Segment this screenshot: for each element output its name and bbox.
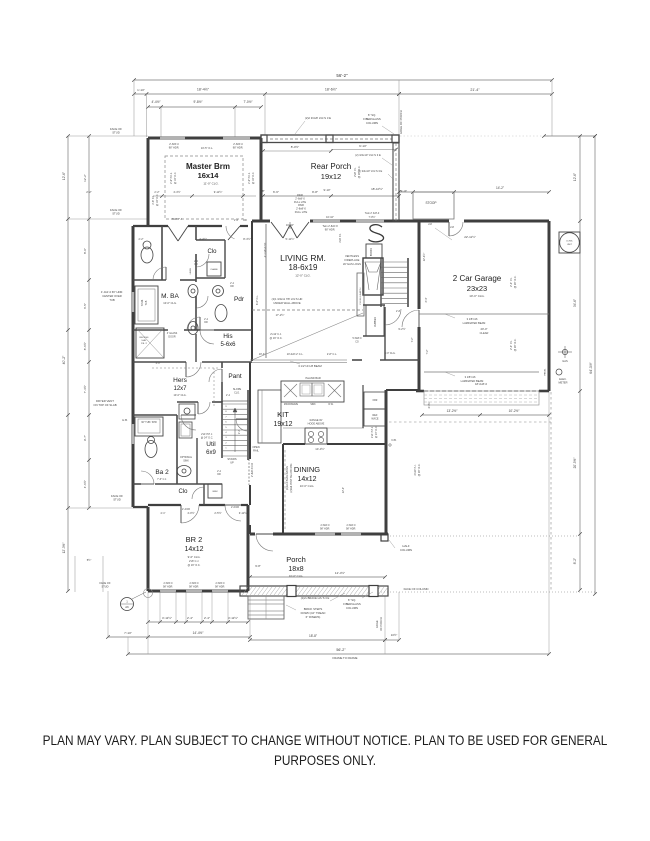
stairs upper treads: [381, 262, 408, 304]
util washer: [179, 404, 195, 419]
paving dotted y592: [381, 591, 597, 593]
dim row master windows: [148, 106, 261, 108]
svg-text:Porch: Porch: [286, 555, 306, 564]
right dim line outer: [594, 136, 596, 594]
svg-text:FACE OF: FACE OF: [99, 581, 111, 585]
svg-text:2'-4" P.J.: 2'-4" P.J.: [510, 340, 513, 350]
svg-text:(2)2 3/4x8' LVL'S 3 E: (2)2 3/4x8' LVL'S 3 E: [305, 116, 331, 120]
door clo upper: [196, 254, 209, 267]
chase box: [207, 262, 221, 276]
extension line x399 edge of porch: [398, 80, 400, 135]
rear porch column 1: [326, 135, 333, 143]
svg-text:9'-10": 9'-10": [323, 188, 330, 192]
svg-text:@ 16" O.C.: @ 16" O.C.: [514, 275, 517, 288]
svg-text:98" HDR.: 98" HDR.: [163, 586, 173, 589]
svg-text:Clo: Clo: [207, 249, 217, 255]
wall garage top: [419, 220, 449, 223]
detail marker A6: [121, 598, 134, 611]
svg-text:8'-0" CLG.: 8'-0" CLG.: [384, 352, 395, 355]
wall garage bottom ends: [416, 390, 424, 393]
svg-text:22'-11½": 22'-11½": [464, 235, 476, 239]
svg-text:STUD: STUD: [112, 212, 120, 216]
stairs lower arrow: [234, 408, 236, 452]
svg-text:19x12: 19x12: [321, 172, 341, 181]
svg-text:Master Brm: Master Brm: [186, 162, 230, 171]
fireplace bookcase: [366, 244, 382, 258]
svg-text:3'-11½": 3'-11½": [162, 616, 172, 620]
beam living-kitchen y361: [250, 359, 347, 361]
dim line overall width 56'-2": [134, 79, 552, 81]
svg-text:56'-2": 56'-2": [336, 73, 348, 78]
paving dashed vertical right: [550, 392, 552, 592]
disclaimer text: [41, 731, 610, 770]
rear porch right band: [393, 143, 399, 221]
wall ba2-util x177: [176, 415, 178, 484]
door ba2 inner: [141, 471, 154, 484]
door ba2: [181, 415, 196, 430]
door mba: [153, 267, 166, 280]
svg-text:STUD: STUD: [113, 498, 121, 502]
svg-text:2'-6" P.C.J.: 2'-6" P.C.J.: [170, 172, 173, 184]
svg-text:64'-3½": 64'-3½": [589, 361, 593, 373]
svg-text:18'-10½": 18'-10½": [371, 187, 383, 191]
svg-text:4'-10": 4'-10": [401, 190, 407, 193]
wall house left: [132, 226, 135, 292]
svg-text:98" HDR.: 98" HDR.: [346, 528, 356, 531]
svg-text:FACE OF COLUMN: FACE OF COLUMN: [404, 587, 429, 591]
wall hall y360: [352, 359, 362, 361]
svg-text:40'-2": 40'-2": [62, 355, 66, 364]
cubbies closet: [366, 305, 384, 336]
face of stud line top-left: [68, 135, 148, 137]
door mud: [385, 309, 401, 325]
dim stoop 14'-2: [399, 191, 549, 193]
wall BR2 right: [247, 505, 250, 591]
svg-text:2'x4' P.P. J.: 2'x4' P.P. J.: [371, 426, 374, 438]
svg-text:12x7: 12x7: [173, 386, 187, 392]
wall house east x386: [385, 390, 388, 534]
wall pant left x222: [221, 362, 223, 368]
svg-text:GAS: GAS: [562, 359, 568, 363]
svg-text:4'-4½": 4'-4½": [173, 190, 180, 194]
svg-text:12'-3½": 12'-3½": [62, 543, 66, 554]
svg-text:Twin 2' 3x8'-0: Twin 2' 3x8'-0: [365, 212, 380, 215]
svg-text:16'-10": 16'-10": [326, 216, 334, 219]
svg-text:LINEN: LINEN: [190, 267, 192, 274]
fireplace hearth: [357, 273, 364, 316]
dim rear porch top inner: [263, 150, 331, 152]
svg-text:7'-4½": 7'-4½": [83, 385, 87, 393]
front porch hatch: [242, 587, 388, 595]
wall y362 hers top: [133, 361, 186, 363]
svg-text:2'-4: 2'-4: [238, 429, 241, 434]
svg-text:P.B. 3': P.B. 3': [141, 343, 148, 345]
svg-text:STUD: STUD: [101, 585, 108, 589]
svg-text:2'-4" P.J.: 2'-4" P.J.: [510, 277, 513, 287]
svg-text:BRM: BRM: [213, 491, 218, 493]
svg-text:8'-0½": 8'-0½": [291, 145, 299, 149]
svg-text:2'-4: 2'-4: [226, 394, 231, 397]
svg-text:10'-0" CLG.: 10'-0" CLG.: [300, 484, 315, 488]
svg-text:EDGE OF PORCH: EDGE OF PORCH: [399, 110, 403, 133]
svg-text:SINK: SINK: [310, 404, 316, 406]
svg-text:98" HDR.: 98" HDR.: [325, 229, 336, 232]
face of stud line lower-left: [68, 507, 148, 509]
svg-text:2-8: 2-8: [428, 223, 432, 226]
extension line x146: [146, 94, 148, 137]
svg-text:CENTER OVER: CENTER OVER: [102, 294, 121, 298]
svg-text:COLUMN: COLUMN: [366, 121, 378, 125]
svg-text:2'-2": 2'-2": [139, 238, 144, 241]
svg-text:7'-0½": 7'-0½": [368, 215, 375, 219]
dim rear porch row: [263, 195, 399, 197]
rear porch column 2: [392, 135, 399, 143]
svg-text:34'-6": 34'-6": [573, 299, 577, 307]
svg-text:12'-6": 12'-6": [62, 172, 66, 180]
svg-text:(2)1 3/4x11 7/8' LVL'S HD: (2)1 3/4x11 7/8' LVL'S HD: [272, 297, 303, 301]
svg-text:9'-8": 9'-8": [255, 564, 261, 568]
svg-text:4'-1": 4'-1": [160, 511, 165, 515]
svg-text:14x12: 14x12: [184, 546, 203, 553]
svg-text:16x14: 16x14: [198, 171, 220, 180]
svg-text:ELEC.: ELEC.: [559, 377, 567, 381]
svg-text:16'-10": 16'-10": [286, 223, 294, 227]
roof dotted line right: [400, 135, 549, 137]
svg-text:3'-4": 3'-4": [425, 297, 428, 302]
door util top: [198, 402, 210, 414]
svg-text:CUBBIES: CUBBIES: [375, 316, 377, 327]
bottom dim 14'-4 1/2: [108, 636, 250, 638]
bottom dim 18'-8: [250, 639, 385, 641]
svg-text:@ 24" O.C.: @ 24" O.C.: [375, 426, 378, 439]
window dining 1: [315, 532, 335, 534]
svg-text:10'-0x8'-2' C.L.: 10'-0x8'-2' C.L.: [287, 353, 304, 356]
svg-text:8'-2": 8'-2": [573, 558, 577, 564]
svg-text:OF PORCH: OF PORCH: [379, 617, 383, 631]
svg-text:2'-6" P.C.J.: 2'-6" P.C.J.: [248, 172, 251, 184]
svg-text:98" HDR.: 98" HDR.: [233, 147, 244, 150]
door BR2: [181, 505, 199, 523]
stairs lower walls: [221, 401, 223, 458]
svg-text:2'x10' P.J.: 2'x10' P.J.: [414, 464, 417, 475]
svg-text:5½": 5½": [87, 558, 92, 562]
door his: [200, 330, 214, 344]
svg-text:2'-6" P.J.: 2'-6" P.J.: [152, 195, 155, 205]
svg-text:DR: DR: [230, 286, 234, 288]
pdr toilet: [215, 305, 227, 322]
porch column 2: [369, 586, 378, 597]
right top dim 12'-6: [544, 135, 595, 137]
mba sinks: [188, 285, 198, 298]
wall his left: [195, 334, 197, 362]
svg-text:FULL LITE: FULL LITE: [295, 210, 308, 214]
svg-text:2'-4 DR: 2'-4 DR: [182, 508, 190, 511]
svg-text:9'-8½": 9'-8½": [193, 100, 202, 104]
window mba left: [131, 292, 133, 312]
half column right: [381, 534, 388, 541]
stairs top edge: [222, 400, 248, 402]
fireplace firebox: [363, 258, 383, 295]
door hers: [186, 362, 201, 377]
svg-text:23x23: 23x23: [467, 284, 487, 293]
window BR2 b2: [186, 589, 202, 591]
section cut S symbol: [369, 225, 384, 242]
svg-text:3'-11½": 3'-11½": [228, 616, 238, 620]
svg-text:2'x8' C.J.: 2'x8' C.J.: [189, 560, 199, 563]
rear porch top band: [261, 135, 399, 143]
kitchen pantry wall x363: [362, 385, 364, 428]
svg-text:77x36: 77x36: [141, 299, 144, 306]
svg-text:2'x8' P.J.: 2'x8' P.J.: [354, 167, 357, 177]
living diagonal: [252, 313, 363, 360]
svg-text:19x12: 19x12: [273, 421, 292, 428]
wall master right: [260, 138, 263, 222]
island stool X 1: [284, 384, 297, 397]
svg-text:4'-11x8'-0 CO: 4'-11x8'-0 CO: [264, 243, 267, 258]
window BR2 b3: [212, 589, 228, 591]
svg-text:8'-6½": 8'-6½": [83, 342, 87, 350]
svg-text:Rear Porch: Rear Porch: [311, 162, 351, 171]
window BR2 b1: [160, 589, 176, 591]
garage door dashed: [424, 390, 539, 392]
svg-text:3 1/2"x9 1/8 BEAM: 3 1/2"x9 1/8 BEAM: [298, 364, 322, 368]
svg-text:BOOKS: BOOKS: [371, 247, 373, 256]
svg-text:@ 16" O.C.: @ 16" O.C.: [418, 463, 421, 476]
svg-text:14x12: 14x12: [297, 476, 316, 483]
svg-text:W/ GAS LOGS: W/ GAS LOGS: [343, 262, 361, 266]
svg-text:W/ICE: W/ICE: [371, 418, 379, 421]
wall living-porch y221: [252, 220, 270, 223]
svg-text:SHR.: SHR.: [141, 340, 147, 342]
wall BR2 bottom: [148, 590, 160, 593]
svg-text:2-8: 2-8: [450, 225, 454, 229]
wall y402 util top: [177, 401, 198, 403]
svg-text:(2)2x10 BEAM ABOVE: (2)2x10 BEAM ABOVE: [286, 465, 289, 490]
svg-text:17'-2½": 17'-2½": [276, 313, 285, 317]
svg-text:DR: DR: [217, 474, 221, 476]
window twin living 2: [356, 219, 384, 221]
svg-text:3 1/8"x16: 3 1/8"x16: [465, 375, 476, 379]
svg-text:10'-0" CLG.: 10'-0" CLG.: [174, 394, 187, 397]
svg-text:3'-11½": 3'-11½": [239, 511, 248, 515]
svg-text:7'-2": 7'-2": [411, 337, 414, 342]
fridge freezer: [364, 392, 386, 409]
range: [305, 428, 327, 444]
window extension lines master: [160, 107, 162, 137]
svg-text:@ 16" O.C.: @ 16" O.C.: [174, 172, 177, 185]
svg-text:DR: DR: [243, 219, 247, 222]
svg-text:21'-4": 21'-4": [470, 88, 480, 92]
svg-text:6'-6": 6'-6": [273, 190, 279, 194]
svg-text:18-6x19: 18-6x19: [289, 263, 318, 272]
svg-text:7'-0½": 7'-0½": [243, 100, 252, 104]
island stool X 2: [328, 384, 341, 397]
svg-text:2'-2": 2'-2": [154, 190, 159, 194]
paving dotted y536: [390, 535, 577, 537]
svg-text:CLG.: CLG.: [234, 392, 240, 395]
svg-text:(2) 3/4x10" LVL'S 3 E: (2) 3/4x10" LVL'S 3 E: [358, 169, 383, 173]
svg-text:(2)2x BRACE LVL'S 3 E: (2)2x BRACE LVL'S 3 E: [301, 596, 330, 600]
wall dining bottom: [250, 533, 255, 536]
svg-text:FLUSH HEARTH: FLUSH HEARTH: [359, 287, 362, 304]
svg-text:20'-5½": 20'-5½": [573, 458, 577, 469]
front porch band: [240, 586, 388, 596]
left dim line outer 40'-2": [67, 136, 69, 591]
svg-text:3 1/8"x16: 3 1/8"x16: [467, 317, 478, 321]
svg-text:MICROWAVE: MICROWAVE: [284, 403, 299, 406]
svg-text:DOOR: DOOR: [168, 336, 175, 339]
svg-text:10'-0" CLG.: 10'-0" CLG.: [469, 294, 485, 298]
wall mba top y280: [133, 279, 166, 281]
door hall-porch: [225, 505, 241, 521]
toilet master wc: [141, 247, 153, 263]
svg-text:12'-4½": 12'-4½": [335, 571, 345, 575]
door pant: [236, 419, 248, 431]
kitchen counter bottom edge: [283, 427, 305, 429]
svg-text:RAIL: RAIL: [253, 449, 259, 453]
wall x196 hall: [195, 226, 197, 240]
wall master top: [148, 137, 160, 140]
svg-text:2'-6: 2'-6: [234, 219, 239, 222]
svg-text:TUB: TUB: [145, 300, 148, 305]
svg-text:@ 24" O.C.: @ 24" O.C.: [201, 437, 214, 440]
svg-text:2'-2": 2'-2": [86, 190, 92, 194]
svg-text:4'-4½": 4'-4½": [427, 401, 431, 408]
svg-text:18x8: 18x8: [288, 566, 303, 573]
svg-text:DR: DR: [204, 322, 208, 324]
svg-text:METER: METER: [558, 381, 567, 385]
svg-text:Util: Util: [206, 441, 216, 448]
svg-text:7'-6" C.J.: 7'-6" C.J.: [157, 478, 167, 481]
wall master bottom: [133, 225, 168, 227]
svg-text:2'-8" C.L.: 2'-8" C.L.: [327, 353, 338, 356]
door garage-mud: [402, 310, 419, 327]
svg-text:10'-4": 10'-4": [259, 352, 266, 356]
svg-text:FRZ: FRZ: [373, 399, 378, 402]
garage beam y314: [419, 313, 549, 315]
face of stud line mid-left: [68, 218, 148, 220]
porch column 1: [287, 586, 296, 597]
svg-text:CONS.: CONS.: [566, 241, 573, 243]
svg-text:DINING: DINING: [294, 465, 320, 474]
svg-text:@ 16" O.C.: @ 16" O.C.: [252, 172, 255, 185]
ba2 toilet: [145, 441, 157, 458]
svg-text:14'-2": 14'-2": [496, 186, 504, 190]
svg-text:PAIR 7'-4: PAIR 7'-4: [172, 218, 183, 221]
svg-text:COLUMN: COLUMN: [346, 606, 358, 610]
svg-text:COLUMN: COLUMN: [400, 548, 412, 552]
svg-text:@ 16" O.C.: @ 16" O.C.: [188, 564, 201, 567]
hers closet rods dashed: [152, 367, 218, 369]
garage apron: [424, 391, 539, 405]
shower master: [136, 328, 164, 358]
pdr sink: [213, 286, 224, 297]
svg-text:4'-0": 4'-0": [156, 362, 161, 365]
svg-text:His: His: [223, 333, 233, 340]
svg-text:ISLAND BAR: ISLAND BAR: [305, 376, 321, 380]
svg-text:Pdr: Pdr: [234, 296, 245, 303]
wall y415 ba2 top: [133, 414, 177, 416]
dining dashed beam: [284, 450, 286, 530]
svg-text:1'-10": 1'-10": [137, 88, 145, 92]
rear porch half column left: [261, 135, 267, 143]
svg-text:2'x12' C.J.: 2'x12' C.J.: [270, 333, 282, 336]
svg-text:Ba 2: Ba 2: [155, 469, 169, 476]
svg-text:14'-4½": 14'-4½": [315, 447, 324, 451]
svg-text:12'-0" CLG.: 12'-0" CLG.: [295, 274, 311, 278]
wall garage left: [418, 221, 421, 309]
door pdr: [196, 296, 208, 308]
clo upper walls: [224, 240, 226, 278]
svg-text:5-6x6: 5-6x6: [220, 342, 236, 348]
svg-text:RECESS: RECESS: [140, 337, 150, 339]
dim garage doors bottom: [422, 414, 549, 416]
wall wc right x162: [161, 226, 163, 280]
bottom dim BR2 windows: [148, 621, 248, 623]
living dim ext column: [265, 224, 267, 358]
svg-text:LIVING RM.: LIVING RM.: [280, 253, 326, 263]
stairs lower treads: [222, 404, 248, 456]
svg-text:8'-0" O.L.: 8'-0" O.L.: [256, 295, 259, 305]
open rail dashed below stairs: [248, 459, 250, 485]
svg-text:UNIT: UNIT: [567, 244, 573, 246]
master ceiling dashed rect: [165, 156, 243, 219]
extension line x552: [551, 80, 553, 136]
svg-text:7'-2": 7'-2": [426, 349, 429, 354]
svg-text:DR: DR: [194, 264, 198, 266]
svg-text:4'-0x2'-0 66" HDR.: 4'-0x2'-0 66" HDR.: [101, 290, 123, 294]
svg-text:BR 2: BR 2: [186, 535, 203, 544]
svg-text:14'-4½": 14'-4½": [193, 631, 204, 635]
svg-text:5'-11½": 5'-11½": [286, 237, 295, 241]
stairs lower tread numbers: [225, 406, 227, 450]
wall y330 his top: [133, 329, 168, 331]
clo lower walls: [203, 484, 205, 505]
extension line left x134: [133, 80, 135, 136]
svg-text:9'-10": 9'-10": [359, 144, 367, 148]
wall jog y507: [133, 506, 148, 508]
window ba2 left: [131, 424, 133, 444]
svg-text:OPEN: OPEN: [252, 445, 259, 449]
door dining-porch: [256, 534, 273, 551]
elec meter: [556, 369, 562, 375]
svg-text:CO: CO: [355, 341, 359, 344]
svg-text:HOOD ABOVE: HOOD ABOVE: [308, 423, 325, 426]
svg-text:60" TUB / SHR: 60" TUB / SHR: [141, 422, 157, 424]
svg-text:20'-0": 20'-0": [480, 327, 487, 331]
door clo lower: [192, 487, 204, 499]
svg-text:9'-8": 9'-8": [312, 190, 318, 194]
door pair rear W leaves: [271, 222, 283, 238]
door stoop-garage: [449, 222, 463, 236]
svg-text:18'-4½": 18'-4½": [197, 88, 210, 92]
svg-text:10'-2½": 10'-2½": [509, 409, 520, 413]
svg-text:(2) 3/4x10" LVL'S 3 E: (2) 3/4x10" LVL'S 3 E: [355, 153, 381, 157]
paving dashed horizontal y422: [389, 421, 551, 423]
wall y484 ba2 bottom: [133, 483, 141, 485]
svg-text:2'x8' P.J.: 2'x8' P.J.: [339, 233, 342, 243]
svg-text:6x9: 6x9: [206, 450, 216, 456]
svg-text:@ 16" O.C.: @ 16" O.C.: [514, 338, 517, 351]
bottom-left stud verticals: [74, 556, 76, 592]
svg-text:8'-4½": 8'-4½": [243, 237, 251, 241]
door util: [209, 369, 222, 382]
svg-text:98" HDR.: 98" HDR.: [189, 586, 199, 589]
garage beam y372: [424, 371, 539, 373]
svg-text:N.B.: N.B.: [391, 438, 396, 442]
dim line 18'-4 1/2 & 18'-6 1/2: [134, 93, 399, 95]
left dim line inner: [88, 136, 90, 508]
